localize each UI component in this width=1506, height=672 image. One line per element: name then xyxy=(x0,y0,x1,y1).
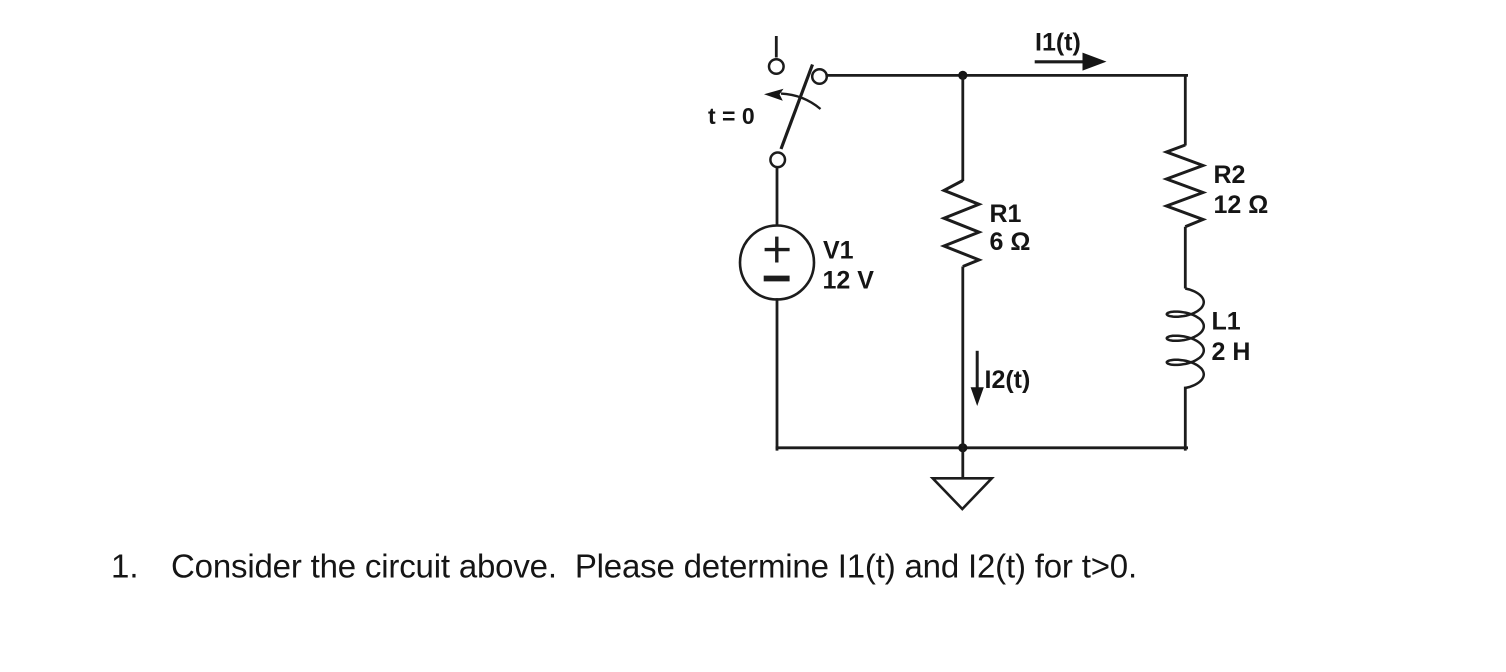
svg-text:I2(t): I2(t) xyxy=(985,366,1031,394)
wire: ground stub xyxy=(961,448,964,478)
switch S1 top contact xyxy=(769,59,784,74)
ground symbol xyxy=(933,478,992,509)
problem statement text xyxy=(111,548,1137,585)
wire: bottom rail xyxy=(777,446,1187,449)
wire: source V1 to bottom rail xyxy=(776,300,779,450)
svg-text:V1: V1 xyxy=(823,237,854,265)
svg-text:1.: 1. xyxy=(111,548,139,585)
svg-text:t = 0: t = 0 xyxy=(708,103,755,129)
svg-text:6 Ω: 6 Ω xyxy=(990,228,1031,256)
svg-text:I1(t): I1(t) xyxy=(1035,29,1081,57)
wire: switch pole to source V1 xyxy=(776,167,779,225)
svg-text:R1: R1 xyxy=(990,200,1022,228)
svg-text:R2: R2 xyxy=(1214,161,1246,189)
current arrow I2(t) xyxy=(971,351,984,406)
wire: stub above switch xyxy=(775,36,778,58)
wire: top junction to R1 xyxy=(961,75,964,181)
svg-text:Consider the circuit above. P: Consider the circuit above. Please deter… xyxy=(171,548,1137,585)
wire: top rail xyxy=(827,74,1187,77)
node: bottom junction xyxy=(958,443,967,452)
switch S1 pole contact xyxy=(770,153,785,168)
wire: R1 to bottom junction xyxy=(961,267,964,448)
switch S1 arm xyxy=(781,65,813,150)
svg-text:L1: L1 xyxy=(1212,308,1241,336)
node: top junction xyxy=(958,71,967,80)
wire: L1 to bottom rail xyxy=(1184,388,1187,449)
voltage source V1 xyxy=(740,226,814,300)
svg-text:12 V: 12 V xyxy=(823,267,875,295)
svg-text:2 H: 2 H xyxy=(1212,338,1251,366)
switch actuation arrow xyxy=(764,89,821,109)
switch S1 throw contact xyxy=(812,69,827,84)
wire: right branch top xyxy=(1184,75,1187,145)
wire: R2 to L1 xyxy=(1184,227,1187,289)
inductor L1 xyxy=(1167,289,1204,389)
current arrow I1(t) xyxy=(1035,53,1107,71)
svg-text:12 Ω: 12 Ω xyxy=(1214,191,1269,219)
resistor R2 xyxy=(1167,145,1204,227)
resistor R1 xyxy=(944,181,979,267)
